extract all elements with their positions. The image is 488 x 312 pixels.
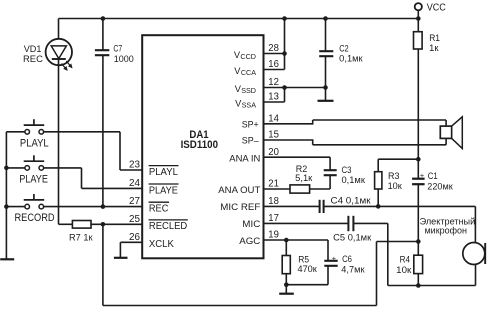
svg-text:23: 23 [129, 160, 140, 171]
svg-text:RECLED: RECLED [149, 221, 187, 232]
svg-text:0,1мк: 0,1мк [339, 53, 363, 63]
svg-text:ISD1100: ISD1100 [181, 139, 218, 151]
svg-text:AGC: AGC [239, 236, 260, 246]
svg-text:15: 15 [268, 130, 279, 141]
svg-text:1к: 1к [429, 43, 439, 53]
svg-text:4,7мк: 4,7мк [341, 264, 365, 274]
svg-text:R5: R5 [298, 255, 309, 265]
svg-text:PLAYL: PLAYL [149, 167, 179, 178]
svg-text:470к: 470к [298, 264, 318, 274]
svg-text:21: 21 [268, 179, 279, 190]
svg-text:SP+: SP+ [242, 119, 259, 129]
svg-text:VCCA: VCCA [234, 66, 256, 77]
svg-text:27: 27 [129, 196, 140, 207]
svg-text:C2: C2 [339, 44, 349, 54]
svg-text:REC: REC [149, 204, 169, 215]
svg-text:18: 18 [268, 196, 279, 207]
svg-text:0,1мк: 0,1мк [342, 175, 366, 185]
svg-text:C7: C7 [113, 43, 122, 53]
svg-text:XCLK: XCLK [149, 239, 174, 250]
svg-text:PLAYL: PLAYL [20, 137, 49, 149]
svg-text:1000: 1000 [114, 54, 134, 64]
svg-text:MIC: MIC [242, 219, 260, 229]
svg-text:24: 24 [129, 178, 140, 189]
svg-text:C3: C3 [342, 165, 352, 175]
svg-text:16: 16 [268, 59, 279, 70]
svg-text:ANA OUT: ANA OUT [218, 185, 260, 195]
svg-text:19: 19 [268, 230, 279, 241]
svg-text:28: 28 [268, 43, 279, 54]
svg-text:VD1: VD1 [24, 44, 42, 54]
svg-text:26: 26 [129, 232, 140, 243]
svg-text:+: + [332, 255, 337, 262]
svg-text:ANA IN: ANA IN [229, 154, 260, 164]
svg-text:R7 1к: R7 1к [69, 232, 93, 242]
svg-text:SP–: SP– [242, 136, 260, 146]
svg-text:PLAYE: PLAYE [19, 174, 48, 186]
svg-text:5,1к: 5,1к [295, 173, 313, 183]
svg-text:C6: C6 [342, 254, 352, 264]
svg-text:C1: C1 [428, 171, 438, 181]
svg-text:14: 14 [268, 113, 279, 124]
svg-text:VCCD: VCCD [234, 50, 256, 61]
svg-text:13: 13 [268, 92, 279, 103]
svg-text:R3: R3 [388, 171, 400, 181]
svg-text:VCC: VCC [427, 2, 446, 13]
svg-text:20: 20 [268, 147, 279, 158]
svg-text:C4 0,1мк: C4 0,1мк [331, 196, 372, 206]
svg-text:R4: R4 [400, 255, 410, 265]
svg-text:PLAYE: PLAYE [149, 185, 178, 196]
svg-text:C5 0,1мк: C5 0,1мк [333, 232, 372, 242]
svg-text:10к: 10к [388, 181, 403, 191]
svg-text:RECORD: RECORD [15, 212, 55, 224]
svg-text:REC: REC [23, 54, 43, 64]
svg-text:220мк: 220мк [427, 181, 453, 191]
svg-text:R1: R1 [429, 33, 440, 43]
svg-text:VSSD: VSSD [235, 84, 256, 95]
svg-text:MIC REF: MIC REF [220, 202, 260, 212]
svg-text:VSSA: VSSA [235, 98, 256, 109]
svg-text:12: 12 [268, 77, 279, 88]
svg-text:микрофон: микрофон [425, 225, 468, 236]
svg-text:10к: 10к [396, 265, 412, 275]
svg-text:25: 25 [129, 214, 140, 225]
svg-text:+: + [420, 173, 425, 180]
svg-text:17: 17 [268, 213, 279, 224]
